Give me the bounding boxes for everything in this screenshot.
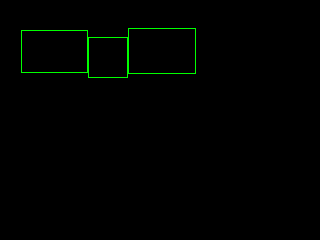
rectangle left <box>21 30 88 73</box>
rectangle right <box>128 28 196 74</box>
rectangle middle <box>88 37 128 78</box>
